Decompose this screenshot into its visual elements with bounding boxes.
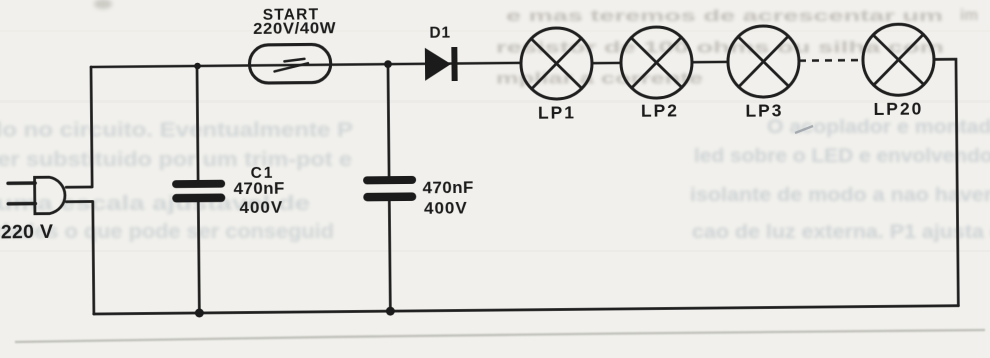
svg-text:D1: D1 (429, 25, 451, 42)
svg-text:pode ser substituido por um tr: pode ser substituido por um trim-pot e (0, 149, 352, 171)
svg-text:LP20: LP20 (873, 99, 923, 119)
svg-text:LP3: LP3 (745, 100, 783, 120)
svg-text:se nulo no circuito. Eventualm: se nulo no circuito. Eventualmente P (0, 120, 353, 142)
svg-text:e mas teremos de acrescentar u: e mas teremos de acrescentar um (506, 8, 943, 25)
svg-text:LP2: LP2 (641, 100, 679, 120)
svg-text:LP1: LP1 (538, 102, 576, 122)
svg-text:470nF: 470nF (423, 178, 474, 197)
svg-text:400V: 400V (424, 198, 468, 217)
svg-text:400V: 400V (239, 198, 283, 217)
svg-text:isolante de modo a nao haver c: isolante de modo a nao haver c (690, 185, 990, 206)
svg-text:220V/40W: 220V/40W (253, 20, 336, 38)
svg-text:470nF: 470nF (234, 179, 285, 198)
svg-text:cao de luz externa. P1 ajusta: cao de luz externa. P1 ajusta o p (692, 222, 990, 243)
svg-text:led sobre o LED e envolvendo-o: led sobre o LED e envolvendo-os (694, 146, 990, 167)
svg-text:resistor de 100 ohms ou silha: resistor de 100 ohms ou silha com (496, 40, 944, 57)
svg-text:220 V: 220 V (1, 221, 54, 244)
svg-text:im: im (960, 7, 978, 24)
